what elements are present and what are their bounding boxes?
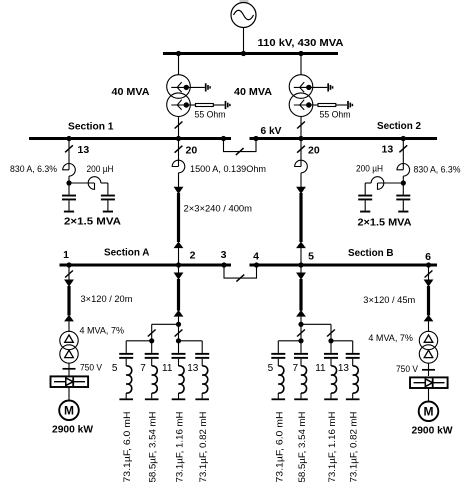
breaker: filter group 1 [297, 330, 305, 337]
busbar Section 2 (6 kV) [250, 137, 438, 140]
svg-text:73.1µF, 1.16 mH: 73.1µF, 1.16 mH [175, 412, 185, 483]
filter inductor 11th [331, 366, 337, 393]
svg-text:M: M [64, 404, 74, 418]
node 1 [66, 262, 71, 267]
svg-text:13: 13 [338, 363, 350, 374]
svg-text:830 A, 6.3%: 830 A, 6.3% [10, 164, 58, 175]
cable: node to filter bank [296, 273, 306, 317]
node 6 [426, 262, 431, 267]
wire: cable to Section B node 5 [300, 248, 302, 264]
svg-text:11: 11 [315, 363, 326, 374]
svg-text:3: 3 [221, 249, 227, 261]
svg-text:73.1µF, 0.82 mH: 73.1µF, 0.82 mH [349, 412, 359, 483]
svg-text:M: M [424, 405, 434, 419]
junction: filter bank top [176, 322, 181, 327]
wire: cable to transformer [68, 321, 70, 331]
svg-text:3×120 / 20m: 3×120 / 20m [81, 294, 133, 305]
junction: filter group 1 [298, 338, 303, 343]
wire: transformer to rectifier [68, 363, 70, 376]
750 V bus tick [422, 369, 435, 371]
svg-text:7: 7 [293, 363, 299, 374]
breaker: T2 secondary [297, 122, 305, 129]
reactor 1500 A, 0.139 Ohm [172, 160, 185, 173]
wire: rectifier to motor [428, 389, 430, 402]
svg-text:Section A: Section A [104, 247, 150, 259]
breaker: filter group 2 [327, 330, 335, 337]
busbar Section B [250, 264, 438, 267]
filter branch 11th harmonic: capacitor [172, 353, 186, 355]
wire: reactor to capacitor bank node [68, 176, 70, 183]
svg-text:2×1.5 MVA: 2×1.5 MVA [64, 216, 121, 228]
junction: capacitor bank node right [401, 180, 406, 185]
wire: T2 HV neutral to ground [311, 86, 327, 88]
filter inductor 5th [278, 366, 284, 393]
filter branch 5th harmonic: capacitor [119, 353, 133, 355]
filter branch 7th harmonic: capacitor [294, 353, 308, 355]
breaker 20 (Section 1) [175, 146, 183, 153]
wire: Section 2 to reactor 20 right [300, 140, 302, 167]
filter branch 5th harmonic: capacitor [271, 353, 285, 355]
junction: feeder 13 on Section 2 [401, 136, 406, 141]
junction: T2 at 110kV bus [298, 51, 303, 56]
resistor 55 Ohm (T1 neutral earthing) [196, 104, 214, 107]
svg-text:5: 5 [268, 363, 274, 374]
reactor 200 uH (right bank) [371, 177, 384, 190]
svg-text:1500 A, 0.139Ohm: 1500 A, 0.139Ohm [190, 164, 266, 175]
wire [277, 393, 279, 398]
wire: 110kV bus to T1 [178, 55, 180, 75]
junction: filter group 2 [176, 338, 181, 343]
node 2 [176, 262, 181, 267]
capacitor C4 (2x1.5 MVA bank) with ground [358, 195, 372, 213]
generator G (external grid source) [231, 3, 256, 28]
reactor 1500 A right [295, 160, 308, 173]
junction: tie end Section 2 [253, 136, 258, 141]
filter inductor 13th [353, 366, 359, 393]
svg-text:73.1µF, 0.82 mH: 73.1µF, 0.82 mH [198, 412, 208, 483]
wire: resistor to ground [213, 104, 224, 106]
svg-text:11: 11 [162, 363, 173, 374]
wire [151, 393, 153, 398]
svg-text:3×120 / 45m: 3×120 / 45m [363, 295, 415, 306]
svg-text:Section 2: Section 2 [377, 120, 421, 132]
transformer 4 MVA 7% [419, 331, 437, 363]
filter branch 13th harmonic: capacitor [346, 353, 360, 355]
busbar Section 1 (6 kV) [29, 137, 231, 140]
wire: rectifier to motor [68, 388, 70, 401]
svg-text:1: 1 [63, 249, 69, 261]
filter branch 13th harmonic: capacitor [195, 353, 209, 355]
wire: group spreads [278, 340, 301, 342]
svg-text:750 V: 750 V [396, 364, 419, 375]
filter inductor 11th [179, 366, 185, 393]
ground [206, 83, 210, 91]
motor M 2900 kW [419, 402, 439, 422]
svg-text:5: 5 [308, 251, 314, 263]
breaker: motor feeder [428, 267, 430, 280]
node 5 [298, 262, 303, 267]
junction: filter group 1 [149, 338, 154, 343]
wire: cable to Section A node 2 [178, 248, 180, 264]
wire: Section 2 to reactor 13 right [402, 140, 404, 170]
svg-text:13: 13 [382, 144, 394, 156]
svg-text:Section B: Section B [348, 247, 394, 259]
wire [151, 359, 153, 366]
svg-text:7: 7 [140, 363, 146, 374]
motor M 2900 kW [59, 401, 79, 421]
junction: filter group 2 [328, 338, 333, 343]
transformer T1 40 MVA 110/6 kV [167, 75, 191, 117]
svg-text:40 MVA: 40 MVA [234, 86, 272, 98]
svg-text:4: 4 [253, 251, 259, 263]
svg-text:Section 1: Section 1 [68, 121, 114, 133]
breaker 13 (Section 1) [65, 145, 73, 152]
wire: node to second capacitor branch right [378, 182, 404, 184]
wire: source to 110kV bus [243, 28, 245, 53]
wire: T2 LV neutral to resistor [311, 104, 318, 106]
bus tie Section1-Section2 [224, 140, 257, 152]
wire: T1 LV neutral to resistor [189, 104, 196, 106]
wire [330, 359, 332, 366]
svg-text:4 MVA, 7%: 4 MVA, 7% [80, 326, 125, 337]
rectifier converter U [410, 377, 448, 388]
reactor 200 uH (left bank) [88, 177, 101, 190]
svg-text:2900 kW: 2900 kW [52, 424, 93, 436]
wire: node to second capacitor branch [69, 182, 95, 184]
svg-text:200 µH: 200 µH [87, 164, 114, 175]
ground [346, 398, 360, 400]
svg-text:73.1µF, 1.16 mH: 73.1µF, 1.16 mH [327, 412, 337, 483]
resistor 55 Ohm (T2 neutral earthing) [318, 104, 336, 107]
cable 3x120 / 20m [64, 280, 74, 322]
breaker: T1 secondary [175, 122, 183, 129]
svg-text:830 A, 6.3%: 830 A, 6.3% [414, 165, 462, 176]
capacitor C2 (2x1.5 MVA bank) with ground [101, 195, 115, 213]
wire: node to capacitor 1 [68, 183, 70, 195]
wire [352, 393, 354, 398]
ground [145, 398, 159, 400]
junction: source at 110kV bus [241, 51, 246, 56]
wire [300, 359, 302, 366]
ground [328, 83, 332, 91]
external grid tab [240, 0, 249, 3]
ground [226, 101, 230, 109]
transformer 4 MVA 7% [60, 331, 78, 363]
breaker: motor feeder [68, 267, 70, 280]
wire: reactor to capacitor bank node right [402, 176, 404, 183]
750 V bus tick [63, 368, 76, 370]
svg-text:20: 20 [186, 145, 198, 157]
wire [277, 359, 279, 366]
filter inductor 7th [301, 366, 307, 393]
wire [125, 393, 127, 398]
svg-text:4 MVA, 7%: 4 MVA, 7% [368, 333, 413, 344]
node 4 [254, 262, 259, 267]
svg-text:110 kV, 430 MVA: 110 kV, 430 MVA [258, 37, 344, 49]
capacitor C1 (2x1.5 MVA bank) with ground [62, 195, 76, 213]
cable 2x3x240 / 400m [174, 187, 184, 248]
filter branch 7th harmonic: capacitor [145, 353, 159, 355]
rectifier converter U [51, 376, 89, 387]
cable 3x120 / 45m [424, 280, 434, 322]
svg-text:13: 13 [187, 363, 199, 374]
wire [178, 359, 180, 366]
wire: Section 1 to reactor 13 [68, 140, 70, 170]
reactor 830 A, 6.3% (right) [397, 164, 410, 177]
svg-text:73.1µF, 6.0 mH: 73.1µF, 6.0 mH [274, 412, 284, 483]
wire [125, 359, 127, 366]
cable Section2 to Section B [296, 187, 306, 248]
junction: feeder 20 on Section 1 [176, 136, 181, 141]
wire: group spreads [126, 340, 152, 342]
wire: reactor to cable right [300, 173, 302, 188]
wire: resistor to ground [336, 104, 347, 106]
wire: cable to transformer [428, 321, 430, 331]
wire: T1 to 6kV bus with breaker [178, 117, 180, 138]
svg-text:58.5µF, 3.54 mH: 58.5µF, 3.54 mH [148, 412, 158, 483]
junction: feeder 20 on Section 2 [298, 136, 303, 141]
junction: capacitor bank node left [66, 180, 71, 185]
filter inductor 5th [126, 366, 132, 393]
breaker: filter group 1 [148, 330, 156, 337]
svg-text:2900 kW: 2900 kW [412, 425, 453, 437]
wire: transformer to rectifier [428, 363, 430, 376]
wire: cable to filter junction [300, 317, 302, 325]
filter inductor 7th [152, 366, 158, 393]
transformer T2 40 MVA 110/6 kV [289, 75, 313, 117]
svg-text:2×1.5 MVA: 2×1.5 MVA [358, 217, 412, 229]
node 3 [221, 262, 226, 267]
filter inductor 13th [202, 366, 208, 393]
svg-text:5: 5 [112, 363, 118, 374]
wire: T2 to 6kV bus with breaker [300, 117, 302, 138]
ground [195, 398, 209, 400]
svg-text:750 V: 750 V [80, 363, 103, 374]
wire: 110kV bus to T2 [300, 55, 302, 75]
wire: node to filter junction [178, 267, 180, 273]
breaker: low-voltage bus tie [236, 275, 244, 282]
svg-text:20: 20 [308, 145, 320, 157]
svg-text:200 µH: 200 µH [356, 164, 383, 175]
wire [330, 393, 332, 398]
wire: T1 HV neutral to ground [189, 86, 205, 88]
wire [201, 393, 203, 398]
svg-text:40 MVA: 40 MVA [112, 86, 150, 98]
bus tie SectionA-SectionB [224, 267, 257, 279]
wire: cable to filter junction [178, 317, 180, 325]
wire: reactor to cable [178, 173, 180, 188]
svg-text:2: 2 [190, 250, 196, 262]
wire: junction to risers [152, 323, 179, 325]
busbar Section A [60, 264, 232, 267]
svg-text:2×3×240 / 400m: 2×3×240 / 400m [184, 204, 253, 215]
svg-text:6 kV: 6 kV [261, 125, 282, 137]
cable: node to filter bank [174, 273, 184, 317]
ground [119, 398, 133, 400]
junction: filter bank top [298, 322, 303, 327]
ground [172, 398, 186, 400]
svg-text:58.5µF, 3.54 mH: 58.5µF, 3.54 mH [297, 412, 307, 483]
ground [272, 398, 286, 400]
110 kV busbar [163, 52, 338, 55]
breaker 20 (Section 2) [297, 146, 305, 153]
filter branch 11th harmonic: capacitor [324, 353, 338, 355]
wire: Section 1 to reactor 20 [178, 140, 180, 167]
ground [324, 398, 338, 400]
svg-text:73.1µF, 6.0 mH: 73.1µF, 6.0 mH [122, 412, 132, 483]
wire [352, 359, 354, 366]
svg-text:13: 13 [78, 144, 90, 156]
wire: junction to risers [301, 323, 331, 325]
wire [201, 359, 203, 366]
svg-text:6: 6 [425, 251, 431, 263]
ground [294, 398, 308, 400]
svg-text:55 Ohm: 55 Ohm [320, 110, 351, 121]
breaker 13 (Section 2) [399, 145, 407, 152]
wire [300, 393, 302, 398]
breaker: 6kV bus tie [236, 148, 244, 155]
svg-text:55 Ohm: 55 Ohm [195, 110, 226, 121]
junction: tie end Section 1 [221, 136, 226, 141]
wire [178, 393, 180, 398]
junction: T1 at 110kV bus [176, 51, 181, 56]
reactor 830 A, 6.3% [63, 164, 76, 177]
junction: feeder 13 on Section 1 [66, 136, 71, 141]
capacitor C3 (2x1.5 MVA bank) with ground [396, 195, 410, 213]
ground [348, 101, 352, 109]
wire: node to capacitor 1 right [402, 183, 404, 195]
wire: node to filter junction [300, 267, 302, 273]
breaker: filter group 2 [175, 330, 183, 337]
